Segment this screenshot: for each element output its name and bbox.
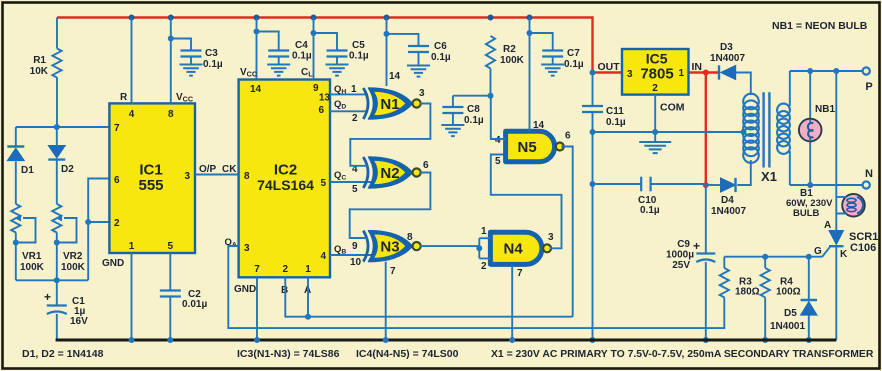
svg-text:BULB: BULB bbox=[793, 208, 820, 219]
wire N5 out to shift register bbox=[561, 147, 573, 317]
transformer X1 primary coil bbox=[777, 104, 790, 117]
wire N1 out to N2 bbox=[350, 104, 430, 166]
capacitor C8 bbox=[442, 107, 463, 113]
svg-text:D2: D2 bbox=[61, 164, 74, 175]
ground C6 bbox=[407, 66, 430, 77]
svg-text:4: 4 bbox=[129, 109, 135, 120]
wire SCR cathode bbox=[835, 246, 837, 340]
wire regulator IN to D3 (red) bbox=[689, 71, 720, 73]
node OUT junction bbox=[590, 70, 596, 76]
svg-text:6: 6 bbox=[114, 175, 120, 186]
svg-text:1: 1 bbox=[481, 226, 487, 237]
wire IC1 pin4 to rail bbox=[131, 18, 133, 104]
svg-text:CK: CK bbox=[222, 164, 237, 175]
wire N line bbox=[790, 184, 863, 186]
node center tap bbox=[741, 129, 747, 135]
svg-text:C106: C106 bbox=[850, 242, 876, 254]
wire C3 to ground bbox=[190, 57, 192, 65]
capacitor C2 bbox=[160, 291, 181, 297]
diode D2 bbox=[48, 146, 65, 159]
potentiometer VR2 bbox=[52, 204, 61, 280]
svg-text:0.1µ: 0.1µ bbox=[203, 59, 223, 70]
wire C8 stem bbox=[452, 96, 454, 107]
gate N5 (NAND) bbox=[506, 131, 555, 161]
svg-text:O/P: O/P bbox=[199, 164, 217, 175]
capacitor C10 bbox=[641, 177, 650, 191]
gate N2 (XOR) bbox=[369, 157, 413, 188]
wire NB1 branch bbox=[809, 71, 811, 185]
wire C8 to ground bbox=[452, 113, 454, 125]
wire D2 lead bbox=[56, 127, 58, 146]
svg-text:5: 5 bbox=[352, 184, 358, 195]
svg-text:N: N bbox=[865, 168, 873, 180]
svg-text:100Ω: 100Ω bbox=[776, 287, 801, 298]
svg-text:0.1µ: 0.1µ bbox=[431, 52, 451, 63]
svg-text:7: 7 bbox=[517, 268, 523, 279]
resistor R4 bbox=[761, 257, 770, 340]
svg-text:1: 1 bbox=[129, 241, 135, 252]
svg-text:7: 7 bbox=[114, 123, 120, 134]
wire D5 bottom lead bbox=[808, 316, 810, 341]
svg-text:C8: C8 bbox=[467, 104, 480, 115]
wire SCR gate diagonal bbox=[822, 247, 830, 257]
svg-text:0.1µ: 0.1µ bbox=[292, 51, 312, 62]
IC IC5 7805 bbox=[622, 49, 689, 95]
wire N1 pin14 to rail bbox=[386, 18, 388, 87]
diode D3 bbox=[718, 65, 720, 79]
svg-text:74LS164: 74LS164 bbox=[257, 177, 314, 193]
svg-text:0.1µ: 0.1µ bbox=[464, 115, 484, 126]
node C4 tap bbox=[254, 29, 260, 35]
node NB1 bottom bbox=[807, 182, 813, 188]
svg-text:CL: CL bbox=[301, 67, 313, 79]
svg-text:3: 3 bbox=[244, 243, 250, 254]
neon bulb NB1 bbox=[799, 119, 822, 142]
svg-text:D5: D5 bbox=[784, 308, 797, 319]
wire IC2 pin7 to ground rail bbox=[256, 277, 258, 340]
wire D4 anode lead bbox=[706, 184, 721, 186]
ground C7 bbox=[541, 65, 564, 76]
svg-text:1: 1 bbox=[351, 84, 357, 95]
wire C11 bottom bbox=[592, 112, 594, 132]
wire D2 to VR2 bbox=[56, 160, 58, 204]
wire IC1 pin6 line bbox=[88, 179, 109, 223]
svg-text:100K: 100K bbox=[500, 55, 525, 66]
wire C5 jog bbox=[314, 33, 338, 51]
bulb B1 bbox=[842, 194, 865, 217]
svg-text:P: P bbox=[865, 81, 872, 93]
node C6 tap bbox=[384, 31, 390, 37]
svg-text:N4: N4 bbox=[504, 241, 524, 258]
svg-text:4: 4 bbox=[495, 135, 501, 146]
svg-text:2: 2 bbox=[283, 264, 289, 275]
capacitor C7 bbox=[542, 51, 563, 57]
wire IC1 pin2 line bbox=[88, 221, 109, 223]
svg-text:VCC: VCC bbox=[176, 92, 193, 104]
node COM junction bbox=[652, 129, 658, 135]
svg-text:25V: 25V bbox=[672, 260, 690, 271]
wire IC2 pin14 to rail bbox=[256, 18, 258, 80]
wire A lead bbox=[307, 277, 309, 316]
capacitor C6 bbox=[408, 46, 429, 52]
wire N5 pin4 lead bbox=[491, 96, 506, 139]
svg-text:180Ω: 180Ω bbox=[735, 287, 760, 298]
wire COM to ground bbox=[654, 95, 656, 132]
node C1 top junction bbox=[54, 277, 60, 283]
svg-text:IC4(N4-N5) = 74LS00: IC4(N4-N5) = 74LS00 bbox=[356, 348, 459, 360]
node C10 junction bbox=[590, 181, 596, 187]
wire lamp/SCR branch bbox=[835, 71, 837, 231]
resistor R1 bbox=[52, 49, 61, 128]
svg-text:NB1: NB1 bbox=[815, 104, 835, 115]
wire C7 to ground bbox=[552, 57, 554, 65]
ground C4 bbox=[267, 65, 290, 76]
node C3 tap bbox=[168, 36, 174, 42]
svg-text:G: G bbox=[814, 246, 822, 257]
node C5 tap bbox=[311, 30, 317, 36]
svg-text:COM: COM bbox=[660, 102, 685, 114]
node ground rail IC2 pin7 bbox=[254, 337, 260, 343]
wire C4 jog bbox=[257, 32, 279, 51]
wire D4 to secondary bottom bbox=[737, 160, 751, 185]
node R4 top bbox=[762, 254, 768, 260]
svg-text:A: A bbox=[824, 220, 831, 231]
svg-text:C5: C5 bbox=[352, 40, 365, 51]
svg-text:N3: N3 bbox=[380, 238, 399, 255]
svg-text:D4: D4 bbox=[721, 195, 734, 206]
wire C9 top lead bbox=[705, 185, 707, 254]
wire COM ground stem bbox=[654, 132, 656, 142]
ground COM bbox=[639, 142, 671, 153]
svg-text:2: 2 bbox=[652, 83, 658, 94]
svg-text:R2: R2 bbox=[503, 44, 516, 55]
node NB1 top bbox=[807, 68, 813, 74]
wire rectifier node vertical (red) bbox=[705, 73, 707, 186]
capacitor C3 bbox=[181, 51, 202, 57]
svg-text:2: 2 bbox=[114, 218, 120, 229]
wire C6 jog bbox=[387, 34, 419, 46]
svg-text:NB1 = NEON BULB: NB1 = NEON BULB bbox=[772, 20, 868, 32]
svg-text:D1: D1 bbox=[21, 165, 34, 176]
diode D4 bbox=[721, 178, 736, 192]
capacitor C9 bbox=[696, 252, 715, 254]
node C11/tap junction bbox=[590, 129, 596, 135]
svg-text:5: 5 bbox=[320, 178, 326, 189]
wire N5 pin14 to rail bbox=[529, 18, 531, 132]
wire C11 stem bbox=[592, 73, 594, 107]
svg-text:555: 555 bbox=[138, 177, 163, 194]
svg-text:0.1µ: 0.1µ bbox=[606, 117, 626, 128]
svg-text:3: 3 bbox=[184, 171, 190, 182]
svg-text:X1: X1 bbox=[761, 169, 777, 184]
svg-text:8: 8 bbox=[407, 232, 413, 243]
node D5 top bbox=[806, 254, 812, 260]
ground C5 bbox=[326, 65, 349, 76]
wire R1 top lead bbox=[56, 18, 58, 49]
wire A/B serial line bbox=[285, 277, 572, 316]
svg-text:6: 6 bbox=[565, 131, 571, 142]
ground C3 bbox=[180, 65, 203, 76]
svg-text:10K: 10K bbox=[30, 66, 49, 77]
node R2/C8/N5 junction bbox=[488, 93, 494, 99]
gate N4 (NAND) bbox=[490, 232, 541, 264]
wire VR2 wiper bracket bbox=[57, 218, 77, 243]
resistor R3 bbox=[720, 257, 729, 298]
svg-text:GND: GND bbox=[102, 258, 124, 269]
wire C4 to ground bbox=[278, 57, 280, 65]
SCR SCR1 bbox=[829, 231, 844, 245]
wire C10 node vertical bbox=[592, 132, 594, 340]
svg-text:C9: C9 bbox=[677, 239, 690, 250]
svg-text:5: 5 bbox=[495, 156, 501, 167]
wire +5V rail (red) bbox=[57, 18, 593, 73]
svg-text:100K: 100K bbox=[20, 262, 45, 273]
wire C9 bottom lead bbox=[705, 262, 707, 340]
node N4 input junction bbox=[476, 245, 482, 251]
wire C10 line left bbox=[593, 183, 642, 185]
wire primary bottom lead bbox=[789, 151, 791, 185]
terminal P bbox=[863, 67, 870, 74]
IC IC2 74LS164 bbox=[239, 80, 330, 278]
wire IC1 pin1 to ground rail bbox=[131, 253, 133, 340]
svg-text:13: 13 bbox=[319, 93, 331, 104]
resistor R2 bbox=[486, 36, 495, 96]
node +5V rail junction bbox=[254, 15, 260, 21]
wire QC to N2 bbox=[330, 181, 372, 183]
wire regulator OUT stub (red) bbox=[593, 71, 623, 73]
wire C1 bottom lead bbox=[56, 314, 58, 340]
wire D3 to secondary top bbox=[736, 73, 751, 96]
svg-text:C11: C11 bbox=[606, 106, 624, 117]
svg-text:9: 9 bbox=[352, 241, 358, 252]
wire IC1 pin5 lead bbox=[169, 253, 171, 291]
wire N3 pin7 to ground rail bbox=[385, 262, 387, 340]
svg-text:R: R bbox=[120, 92, 128, 103]
svg-text:0.1µ: 0.1µ bbox=[349, 51, 369, 62]
svg-text:1N4007: 1N4007 bbox=[710, 53, 745, 64]
svg-text:2: 2 bbox=[352, 113, 358, 124]
svg-text:N1: N1 bbox=[380, 96, 399, 113]
node +5V rail junction bbox=[129, 15, 135, 21]
svg-text:C4: C4 bbox=[295, 40, 308, 51]
svg-text:VCC: VCC bbox=[240, 67, 257, 79]
node A/B junction bbox=[305, 314, 311, 320]
wire C5 to ground bbox=[336, 57, 338, 65]
wire QH to N1 bbox=[330, 93, 368, 95]
wiper arrow VR1 bbox=[15, 215, 22, 222]
svg-text:C6: C6 bbox=[434, 41, 447, 52]
wire pin2 node down bbox=[87, 222, 89, 280]
node D5 bottom bbox=[806, 337, 812, 343]
node VR2 wiper junction bbox=[54, 240, 60, 246]
svg-text:0.1µ: 0.1µ bbox=[564, 59, 584, 70]
node rectifier DC junction bbox=[703, 182, 709, 188]
wire QA line bbox=[228, 246, 724, 328]
svg-text:+: + bbox=[44, 290, 51, 304]
node +5V rail junction bbox=[168, 15, 174, 21]
svg-text:1N4007: 1N4007 bbox=[711, 206, 746, 217]
capacitor C1 bbox=[47, 304, 67, 306]
svg-text:IC3(N1-N3) = 74LS86: IC3(N1-N3) = 74LS86 bbox=[237, 348, 340, 360]
wire IC1 pin7 line bbox=[16, 126, 110, 128]
wire D1 to VR1 bbox=[15, 162, 17, 205]
wire QB to N3 bbox=[330, 254, 372, 256]
node pin2/pin6 junction bbox=[85, 219, 91, 225]
node IN junction bbox=[703, 70, 709, 76]
node R1/D2/pin7 junction bbox=[54, 124, 60, 130]
svg-text:3: 3 bbox=[548, 232, 554, 243]
svg-text:3: 3 bbox=[627, 69, 633, 80]
gate N1 (XOR) bbox=[369, 88, 413, 119]
node +5V rail junction bbox=[311, 15, 317, 21]
wire C2 to ground rail bbox=[169, 297, 171, 341]
wire C3 jog bbox=[171, 39, 191, 51]
svg-text:R1: R1 bbox=[33, 55, 46, 66]
potentiometer VR1 bbox=[11, 204, 20, 280]
capacitor C4 bbox=[268, 51, 289, 57]
svg-text:VR2: VR2 bbox=[63, 251, 83, 262]
svg-text:C7: C7 bbox=[567, 48, 580, 59]
transformer X1 core bbox=[764, 92, 770, 167]
wire C1 top lead bbox=[56, 280, 58, 305]
svg-text:D1, D2 = 1N4148: D1, D2 = 1N4148 bbox=[22, 348, 104, 360]
node VR1 wiper junction bbox=[13, 240, 19, 246]
node ground rail N3 pin7 bbox=[383, 337, 389, 343]
wire N4 out to N5 pin5 bbox=[491, 155, 562, 249]
svg-text:IC5: IC5 bbox=[646, 50, 668, 66]
svg-text:8: 8 bbox=[168, 109, 174, 120]
ground C8 bbox=[441, 125, 464, 136]
svg-text:5: 5 bbox=[168, 241, 174, 252]
wire C8 top line bbox=[453, 95, 491, 97]
svg-text:1N4001: 1N4001 bbox=[770, 321, 805, 332]
svg-text:OUT: OUT bbox=[598, 61, 621, 73]
node C9 ground bbox=[703, 337, 709, 343]
wire gate line bbox=[724, 256, 822, 258]
wire VR1 wiper bracket bbox=[16, 218, 36, 243]
diode D1 bbox=[7, 145, 24, 147]
wire N3 out to N4 bbox=[420, 245, 479, 247]
svg-text:4: 4 bbox=[320, 251, 326, 262]
wire C7 jog bbox=[530, 33, 553, 51]
transformer X1 secondary coil bbox=[743, 94, 759, 110]
wire VR bottoms to C1 bbox=[16, 279, 88, 281]
wire D5 top lead bbox=[808, 257, 810, 300]
node ground rail C2 bbox=[167, 337, 173, 343]
svg-text:7: 7 bbox=[390, 266, 396, 277]
node +5V rail junction bbox=[527, 15, 533, 21]
capacitor C5 bbox=[327, 51, 348, 57]
svg-text:IN: IN bbox=[692, 61, 703, 73]
svg-text:X1 = 230V AC PRIMARY TO 7.5V-0: X1 = 230V AC PRIMARY TO 7.5V-0-7.5V, 250… bbox=[491, 349, 874, 360]
wire D1 cathode lead bbox=[15, 127, 17, 147]
node R4 bottom bbox=[762, 337, 768, 343]
node lamp branch top bbox=[833, 68, 839, 74]
node ground rail IC1 pin1 bbox=[129, 337, 135, 343]
wire N4 input bracket bbox=[479, 238, 490, 258]
node +5V rail junction bbox=[488, 15, 494, 21]
wire IC1 pin8 to rail bbox=[170, 18, 172, 104]
diode D5 bbox=[801, 299, 818, 301]
svg-text:N5: N5 bbox=[518, 139, 537, 156]
svg-text:10: 10 bbox=[350, 257, 362, 268]
wire C10 line right bbox=[651, 183, 706, 185]
svg-text:2: 2 bbox=[481, 261, 487, 272]
wire N4 pin7 to ground rail bbox=[511, 265, 513, 341]
ground rail bbox=[56, 339, 837, 342]
gate N3 (XOR) bbox=[369, 231, 413, 262]
svg-text:16V: 16V bbox=[70, 316, 88, 327]
wire P line bbox=[790, 70, 863, 72]
svg-text:0.01µ: 0.01µ bbox=[182, 299, 207, 310]
wire QD to N1 bbox=[330, 110, 368, 112]
svg-text:GND: GND bbox=[234, 284, 256, 295]
svg-text:7805: 7805 bbox=[640, 66, 673, 83]
svg-text:D3: D3 bbox=[720, 42, 733, 53]
wire O/P CK line bbox=[195, 174, 239, 176]
wire IC2 pin9 CL to rail bbox=[313, 18, 315, 80]
svg-text:1: 1 bbox=[305, 264, 311, 275]
svg-text:7: 7 bbox=[254, 264, 260, 275]
node C7 tap bbox=[527, 30, 533, 36]
svg-text:K: K bbox=[840, 249, 848, 260]
svg-text:3: 3 bbox=[419, 88, 425, 99]
svg-text:8: 8 bbox=[244, 171, 250, 182]
node ground rail x592 bbox=[590, 337, 596, 343]
svg-text:VR1: VR1 bbox=[22, 251, 42, 262]
svg-text:6: 6 bbox=[318, 105, 324, 116]
wiper arrow VR2 bbox=[56, 215, 63, 222]
svg-text:6: 6 bbox=[423, 160, 429, 171]
terminal N bbox=[863, 181, 870, 188]
wire C6 to ground bbox=[418, 52, 420, 66]
svg-text:14: 14 bbox=[389, 71, 401, 82]
capacitor C11 bbox=[582, 106, 603, 112]
svg-text:100K: 100K bbox=[61, 262, 86, 273]
wire N2 out to N3 bbox=[350, 173, 431, 239]
wire center tap line bbox=[593, 131, 744, 133]
node +5V rail junction bbox=[384, 15, 390, 21]
node ground rail N4 pin7 bbox=[509, 337, 515, 343]
wire primary top lead bbox=[789, 71, 791, 106]
svg-text:C3: C3 bbox=[205, 48, 218, 59]
svg-text:1000µ: 1000µ bbox=[666, 250, 694, 261]
svg-text:+: + bbox=[693, 239, 700, 253]
svg-text:14: 14 bbox=[533, 120, 545, 131]
svg-text:0.1µ: 0.1µ bbox=[640, 205, 660, 216]
svg-text:N2: N2 bbox=[380, 165, 399, 182]
svg-text:14: 14 bbox=[250, 84, 262, 95]
svg-text:1: 1 bbox=[678, 68, 684, 79]
IC IC1 555 bbox=[109, 103, 195, 253]
